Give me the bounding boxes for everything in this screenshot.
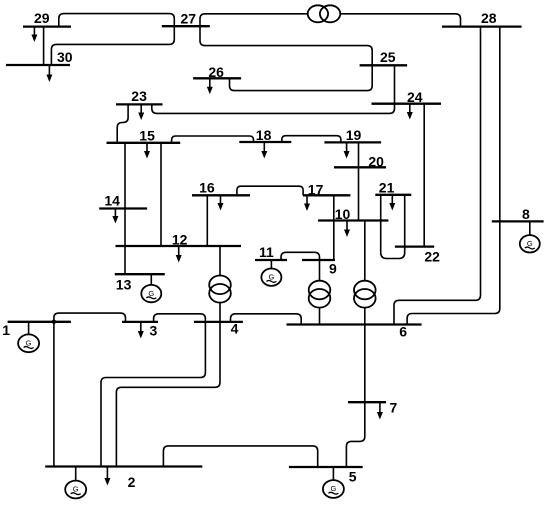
bus 21 bar bbox=[375, 194, 411, 196]
svg-text:25: 25 bbox=[380, 49, 396, 65]
load arrow bus 24 bbox=[407, 104, 413, 120]
bus 3 bar bbox=[122, 321, 158, 323]
wire line 29-30 bbox=[43, 27, 45, 65]
svg-text:14: 14 bbox=[104, 193, 120, 209]
bus 5 bar bbox=[289, 466, 363, 468]
wire line 11-9 and 9-6 via transformer bbox=[281, 252, 320, 281]
bus 18 bar bbox=[239, 141, 291, 143]
bus 26 bar bbox=[193, 77, 241, 79]
svg-text:4: 4 bbox=[231, 321, 239, 337]
wire line 19-20-10 bbox=[358, 142, 360, 220]
wire line 16-17 bbox=[237, 186, 303, 195]
svg-text:13: 13 bbox=[116, 277, 132, 293]
svg-text:11: 11 bbox=[259, 244, 274, 260]
generator G2 at bus 2 bbox=[65, 467, 86, 499]
svg-text:23: 23 bbox=[131, 88, 147, 104]
wire line 15-18 bbox=[172, 136, 254, 143]
generator G11 at bus 11 bbox=[261, 260, 281, 286]
bus 13 bar bbox=[115, 273, 165, 275]
bus 27 bar bbox=[162, 25, 210, 27]
bus 6 bar bbox=[287, 323, 422, 325]
svg-text:1: 1 bbox=[2, 322, 10, 338]
wire transformer T2 to bus 6 bbox=[319, 308, 321, 325]
wire line 3-4-2 bbox=[101, 314, 205, 467]
wire line 10 to transformer T3 bbox=[364, 221, 366, 281]
generator G5 at bus 5 bbox=[323, 467, 344, 498]
load arrow bus 12 bbox=[176, 246, 182, 263]
svg-text:9: 9 bbox=[329, 261, 337, 277]
bus 29 bar bbox=[23, 25, 71, 27]
svg-text:8: 8 bbox=[522, 206, 530, 222]
wire line 28-6 bbox=[394, 27, 481, 325]
bus 22 bar bbox=[395, 245, 434, 247]
svg-text:27: 27 bbox=[181, 11, 197, 27]
load arrow bus 26 bbox=[207, 78, 213, 94]
load arrow bus 23 bbox=[138, 104, 144, 120]
svg-text:7: 7 bbox=[390, 400, 398, 416]
load arrow bus 18 bbox=[261, 142, 267, 159]
generator G1 at bus 1 bbox=[18, 322, 39, 352]
generator G13 at bus 13 bbox=[141, 274, 161, 302]
wire line 29-27-30 bbox=[51, 14, 174, 65]
wire line 12 to transformer T1 bbox=[219, 246, 221, 275]
wire line 15-14-12-13 bbox=[124, 143, 126, 274]
bus 7 bar bbox=[348, 401, 386, 403]
generator G8 at bus 8 bbox=[520, 221, 540, 252]
load arrow bus 2 bbox=[104, 467, 110, 486]
transformer T2 9-6 bbox=[309, 281, 331, 308]
junction dot bus 1 bbox=[52, 320, 56, 324]
transformer T1 12-4 bbox=[209, 276, 231, 303]
wire line 1-2 and 1-3 bbox=[54, 313, 126, 466]
wire line 18-19 bbox=[282, 136, 341, 143]
bus 24 bar bbox=[372, 103, 442, 105]
wire line 23-15 bbox=[117, 104, 128, 142]
bus 15 bar bbox=[107, 142, 181, 144]
load arrow bus 29 bbox=[31, 27, 37, 42]
svg-text:6: 6 bbox=[399, 324, 407, 340]
load arrow bus 30 bbox=[46, 65, 52, 82]
bus 11 bar bbox=[255, 259, 287, 261]
wire line 26-25-27 bbox=[200, 26, 372, 90]
load arrow bus 7 bbox=[377, 402, 383, 419]
transformer T3 10-6 bbox=[354, 281, 376, 308]
load arrow bus 10 bbox=[344, 221, 350, 238]
bus 14 bar bbox=[99, 207, 147, 209]
bus 28 bar bbox=[442, 25, 522, 27]
wire line 2-5 bbox=[163, 446, 317, 467]
bus 23 bar bbox=[116, 103, 163, 105]
bus 25 bar bbox=[360, 64, 408, 66]
svg-text:22: 22 bbox=[424, 249, 440, 265]
svg-text:17: 17 bbox=[308, 182, 324, 198]
wire line 21-10-22 U loop bbox=[381, 195, 405, 259]
svg-text:28: 28 bbox=[481, 10, 497, 26]
wire line 28-8-6 bbox=[407, 27, 500, 325]
bus 19 bar bbox=[324, 141, 381, 143]
bus 2 bar bbox=[45, 465, 202, 467]
svg-text:19: 19 bbox=[346, 127, 362, 143]
wire line 25-24-23 bbox=[152, 65, 395, 113]
load arrow bus 21 bbox=[389, 195, 395, 211]
svg-text:3: 3 bbox=[150, 323, 158, 339]
svg-text:26: 26 bbox=[208, 64, 224, 80]
bus 9 bar bbox=[302, 259, 335, 261]
wire line 17-10-9 bbox=[333, 195, 335, 260]
bus 12 bar bbox=[116, 245, 242, 247]
wire transformer T1 through bus 4 to bus 2 bbox=[116, 303, 220, 467]
wire line 16-12 bbox=[206, 195, 208, 246]
svg-text:24: 24 bbox=[407, 89, 423, 105]
bus 20 bar bbox=[334, 166, 386, 168]
svg-text:20: 20 bbox=[368, 154, 384, 170]
wire line 15-12 bbox=[160, 143, 162, 246]
svg-text:29: 29 bbox=[34, 10, 50, 26]
bus 4 bar bbox=[194, 321, 243, 323]
load arrow bus 16 bbox=[218, 195, 224, 210]
svg-text:18: 18 bbox=[256, 127, 272, 143]
svg-text:21: 21 bbox=[379, 180, 395, 196]
bus 8 bar bbox=[492, 220, 544, 222]
svg-text:30: 30 bbox=[57, 49, 73, 65]
svg-text:16: 16 bbox=[199, 180, 215, 196]
wire line 27-28 via transformer bbox=[200, 14, 461, 27]
svg-text:10: 10 bbox=[335, 206, 351, 222]
bus 10 bar bbox=[318, 219, 388, 221]
svg-text:2: 2 bbox=[128, 474, 136, 490]
load arrow bus 3 bbox=[138, 322, 144, 339]
bus 1 bar bbox=[8, 321, 71, 323]
load arrow bus 15 bbox=[144, 143, 150, 159]
svg-text:5: 5 bbox=[349, 469, 357, 485]
load arrow bus 14 bbox=[112, 209, 118, 224]
svg-text:15: 15 bbox=[139, 127, 155, 143]
transformer 27-28 bbox=[308, 5, 341, 22]
load arrow bus 19 bbox=[344, 142, 350, 158]
bus 30 bar bbox=[6, 64, 70, 66]
load arrow bus 17 bbox=[304, 195, 310, 211]
svg-text:12: 12 bbox=[172, 232, 188, 248]
bus 17 bar bbox=[303, 194, 350, 196]
wire transformer T3 through bus 6 and 7 to bus 5 bbox=[346, 308, 364, 467]
wire line 4-6 bbox=[231, 314, 302, 325]
wire line 24-22 bbox=[423, 104, 425, 247]
bus 16 bar bbox=[192, 194, 250, 196]
